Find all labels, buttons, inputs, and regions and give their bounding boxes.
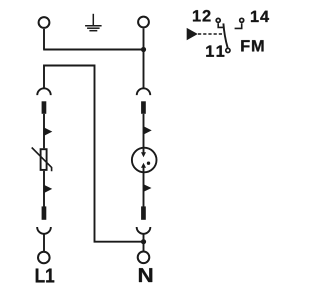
disconnect bar upper N branch [141,101,146,114]
ground [85,14,102,31]
label FM [241,40,263,51]
label N [139,268,152,282]
switch lever 11 [223,23,227,48]
fork contact lower N branch [137,227,151,234]
breakaway marker triangle lower N branch [143,184,151,192]
breakaway marker triangle lower L1 branch [44,185,53,194]
socket arc upper N branch [137,88,151,95]
terminal circle top-left (PE) [39,17,50,28]
contact circle 14 [240,18,244,22]
contact seat 12 [218,23,224,27]
actuation dashed line [198,33,222,35]
terminal circle L1 [38,252,50,264]
remote signal contact FM actuation arrow [187,28,198,40]
wire spark gap to lower bar [143,172,145,206]
label L1 [36,269,54,283]
wire bar to varistor [43,114,45,149]
wire from top-right terminal down N branch [143,28,145,88]
wire bar to spark gap [143,114,145,148]
disconnect bar upper L1 branch [42,101,47,114]
label 11 [206,46,224,57]
breakaway marker triangle upper N branch [143,126,152,135]
junction top [141,47,146,52]
breakaway marker triangle upper L1 branch [44,127,53,136]
wire fork to L1 terminal [43,234,45,251]
terminal circle top-right (PE) [138,17,149,28]
socket arc upper L1 branch [37,88,51,95]
label 14 [251,11,269,22]
wire from top-left terminal down [43,29,45,50]
fork contact lower L1 branch [37,227,51,234]
wire fork to N terminal [143,234,145,251]
contact seat 14 [235,23,242,28]
wire L1 branch top over middle down to bottom [44,66,144,242]
spark gap (gas discharge tube) [132,148,157,173]
wire varistor to lower bar [43,171,45,207]
contact circle 11 [226,48,230,52]
label 12 [193,10,211,21]
contact circle 12 [216,18,220,22]
disconnect bar lower N branch [141,206,146,219]
junction bottom [141,239,146,244]
disconnect bar lower L1 branch [42,206,47,219]
varistor [32,148,52,172]
wire top horizontal [43,49,143,51]
terminal circle N [138,251,150,263]
